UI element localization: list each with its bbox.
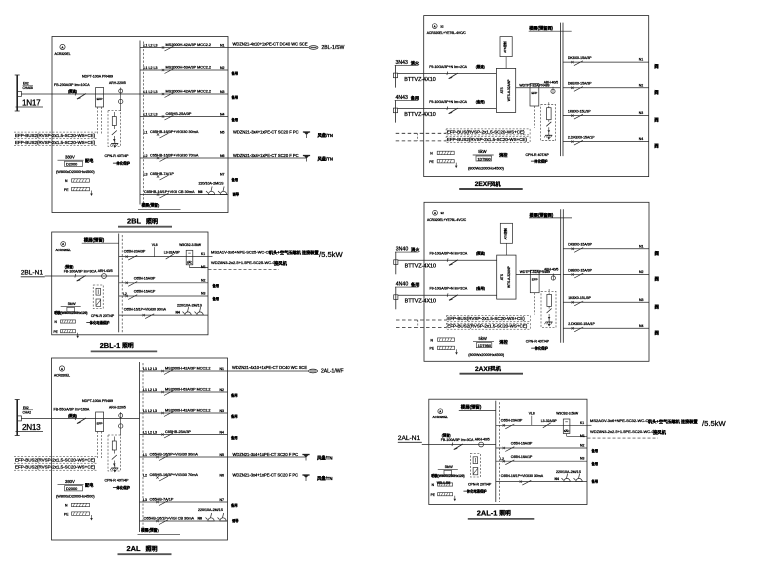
svg-text:C65HB-16/1P+VIGI CB 30mA: C65HB-16/1P+VIGI CB 30mA [144,190,195,194]
svg-text:L3: L3 [143,498,147,502]
svg-text:2AL-N1: 2AL-N1 [398,435,421,442]
svg-text:MS2A1V-3x6+NPE-SC25-WC-CE: MS2A1V-3x6+NPE-SC25-WC-CE [211,249,271,254]
svg-text:L1 L2 L3: L1 L2 L3 [143,409,157,413]
svg-text:风盘/TN: 风盘/TN [318,156,334,163]
svg-text:32: 32 [440,24,444,28]
svg-text:380V: 380V [65,479,75,484]
svg-text:C65N-16A/3P: C65N-16A/3P [511,442,533,446]
svg-text:E02: E02 [23,82,29,86]
svg-text:EFP-BUS(RVSP-2x1.5-SC20-WS+CE): EFP-BUS(RVSP-2x1.5-SC20-WS+CE) [447,129,525,134]
svg-text:C65HB-25A/3P: C65HB-25A/3P [165,430,191,434]
svg-text:MS2000H-42A/3P MCC2.2: MS2000H-42A/3P MCC2.2 [166,89,212,93]
svg-text:220/10A-2M/1S: 220/10A-2M/1S [177,304,203,308]
svg-text:楼层(预留阀): 楼层(预留阀) [529,25,553,32]
svg-text:MS2AGV-3x6+NPE-SC32-WC-CE: MS2AGV-3x6+NPE-SC32-WC-CE [590,418,651,423]
svg-text:WTS-A-32A/4P: WTS-A-32A/4P [507,266,511,288]
svg-text:32: 32 [441,211,445,215]
svg-text:D2000: D2000 [66,487,77,491]
svg-text:N8: N8 [198,190,203,194]
svg-text:K1: K1 [580,421,584,425]
svg-text:F9-10GA/3P+N Im=2CA: F9-10GA/3P+N Im=2CA [430,252,468,256]
svg-text:风机: 风机 [490,180,501,188]
svg-text:5kW: 5kW [68,301,76,306]
svg-text:C65HB-16/3P+VIGI30 30mA: C65HB-16/3P+VIGI30 30mA [150,130,199,134]
svg-text:EFP: EFP [532,278,538,282]
svg-text:备用: 备用 [591,461,599,466]
svg-text:WDZN21-3x4+1xPE-CT SC20 F PC: WDZN21-3x4+1xPE-CT SC20 F PC [233,472,299,477]
svg-text:L1 L2 L3: L1 L2 L3 [143,367,157,371]
svg-text:风盘/TN: 风盘/TN [317,455,333,462]
svg-text:N7: N7 [220,498,225,502]
svg-text:E02: E02 [23,406,29,410]
svg-text:MS2000H-42A/3P MCC2.2: MS2000H-42A/3P MCC2.2 [166,43,212,47]
svg-text:EFP: EFP [97,97,103,101]
svg-text:N4: N4 [555,477,559,481]
svg-text:(W800xD2000Hx4500): (W800xD2000Hx4500) [56,170,95,174]
svg-text:机头+空气压缩机 连接装置: 机头+空气压缩机 连接装置 [648,418,698,425]
svg-text:5kW: 5kW [478,149,486,154]
svg-text:EFP-BUS2(RVSP-2x1.5-SC20-WS+CE: EFP-BUS2(RVSP-2x1.5-SC20-WS+CE) [15,458,96,463]
svg-text:ARH-40/5: ARH-40/5 [98,269,113,273]
svg-text:F9-10GA/3P+N Im=2CA: F9-10GA/3P+N Im=2CA [430,287,468,291]
svg-text:(W800xD2000Hx4500): (W800xD2000Hx4500) [56,495,95,499]
svg-text:N2: N2 [201,278,205,282]
svg-text:BTTVZ-4X10: BTTVZ-4X10 [405,264,436,270]
svg-text:CPN-R 40T/4P: CPN-R 40T/4P [526,340,550,344]
svg-text:(800Wx2000Hx4500): (800Wx2000Hx4500) [468,353,505,357]
svg-text:N4: N4 [639,137,644,141]
svg-text:消控: 消控 [499,338,508,345]
svg-text:ATS: ATS [500,274,504,280]
svg-text:2AL-1/WF: 2AL-1/WF [321,369,344,375]
svg-text:W3CB2-3.5kW: W3CB2-3.5kW [556,412,579,416]
svg-text:2BL-1/SW: 2BL-1/SW [322,45,345,51]
svg-text:2AXF: 2AXF [475,366,492,373]
svg-text:配电: 配电 [85,157,94,164]
svg-text:EFP-BUS2(RVSP-2x1.5-SC20-WS+CE: EFP-BUS2(RVSP-2x1.5-SC20-WS+CE) [15,133,96,138]
svg-text:MS2000H-42A/3P MCC2.2: MS2000H-42A/3P MCC2.2 [165,366,211,370]
svg-text:(限流): (限流) [476,64,485,69]
svg-text:CPN-R 40T/4P: CPN-R 40T/4P [105,154,130,158]
svg-text:备用: 备用 [231,117,239,122]
svg-text:ATS控制: ATS控制 [502,41,507,52]
svg-text:VL8: VL8 [529,412,535,416]
svg-text:N3: N3 [220,90,225,94]
svg-text:WDZ8N3-2x2.5+1.5PE-SC25-WC-CE: WDZ8N3-2x2.5+1.5PE-SC25-WC-CE [211,260,278,265]
svg-text:阀: 阀 [654,117,659,124]
svg-text:1DT9B0: 1DT9B0 [478,157,491,161]
svg-text:2BL-1: 2BL-1 [100,341,121,350]
svg-text:L3-32A/3P: L3-32A/3P [541,419,558,423]
svg-text:A: A [62,242,64,246]
svg-text:EFP-BUS(RVSP-2x1.5-SC20-WS+CE): EFP-BUS(RVSP-2x1.5-SC20-WS+CE) [447,316,525,321]
svg-text:WDZN21-4x10+1xPE-CT DC40 WC SC: WDZN21-4x10+1xPE-CT DC40 WC SCE [233,42,308,47]
svg-text:阀: 阀 [654,89,659,96]
svg-text:DK8X0-15A/3P: DK8X0-15A/3P [568,243,592,247]
svg-text:D8BX0-15A/3P: D8BX0-15A/3P [568,268,592,272]
svg-text:C65HB-7A/1P: C65HB-7A/1P [150,172,174,176]
svg-text:楼层(预留): 楼层(预留) [142,203,160,208]
svg-text:ACR320EL+YE76L-4VC/C: ACR320EL+YE76L-4VC/C [427,218,467,222]
svg-text:L2: L2 [144,154,148,158]
svg-text:楼层(预留阀): 楼层(预留阀) [530,211,554,218]
svg-text:N4: N4 [220,112,225,116]
svg-text:WTS-A-32A/4P: WTS-A-32A/4P [507,80,511,102]
svg-text:楼层(预留): 楼层(预留) [141,528,159,533]
svg-text:WDZN21-3x4+1xPE-CT SC20 F PC: WDZN21-3x4+1xPE-CT SC20 F PC [233,153,299,158]
svg-text:380V: 380V [65,155,75,160]
svg-text:一体化保护: 一体化保护 [113,485,131,490]
svg-text:FB-230A/3P Im=10CA: FB-230A/3P Im=10CA [54,83,90,87]
svg-text:楼层(预留): 楼层(预留) [461,404,482,411]
svg-text:风机: 风机 [491,365,502,373]
svg-text:2.DK8X0-15A/1P: 2.DK8X0-15A/1P [568,322,595,326]
svg-text:N4: N4 [176,311,180,315]
svg-text:N1: N1 [220,43,225,47]
svg-text:PE: PE [54,330,58,334]
svg-text:5kW: 5kW [445,464,453,469]
svg-text:CPN-R 40T/4P: CPN-R 40T/4P [526,153,550,157]
svg-text:EFP: EFP [97,422,103,426]
svg-text:EFP-BUS2(RVSP-2x1.5-SC20-WS+CE: EFP-BUS2(RVSP-2x1.5-SC20-WS+CE) [15,140,96,145]
svg-text:SAC: SAC [564,429,569,433]
svg-text:FB-55GA/3P Im=160A: FB-55GA/3P Im=160A [54,408,90,412]
svg-text:阀: 阀 [654,63,659,70]
svg-text:L1 L2 L3: L1 L2 L3 [144,112,158,116]
svg-text:一体化电涌保护: 一体化电涌保护 [464,489,488,494]
svg-text:WDZN21-4x10+1xPE-CT DC40 WC SC: WDZN21-4x10+1xPE-CT DC40 WC SCE [232,365,307,370]
svg-text:PE: PE [430,347,435,351]
svg-text:1K8X0-15L/3P: 1K8X0-15L/3P [568,109,591,113]
svg-text:5kW: 5kW [479,336,487,341]
svg-text:N2: N2 [639,83,644,87]
svg-text:L2: L2 [500,457,504,461]
svg-text:L1 L2 L3: L1 L2 L3 [144,90,158,94]
svg-text:ACR320EL: ACR320EL [55,248,71,252]
svg-text:C65HB-16/3P+VIGI30 70mA: C65HB-16/3P+VIGI30 70mA [150,153,199,157]
svg-text:N3: N3 [639,298,644,302]
svg-text:诱导: 诱导 [232,518,239,523]
svg-text:220/10A-2M/1S: 220/10A-2M/1S [556,470,582,474]
svg-text:EFP-BUS2(RVSP-2x1.5-SC20-WS+CE: EFP-BUS2(RVSP-2x1.5-SC20-WS+CE) [447,324,528,329]
svg-text:N2: N2 [639,270,644,274]
svg-text:N4: N4 [220,430,225,434]
svg-text:CPN-R 40T/4P: CPN-R 40T/4P [105,479,130,483]
svg-text:明装(W800x250Hx120): 明装(W800x250Hx120) [54,310,87,315]
svg-text:ARH-220/5: ARH-220/5 [109,81,126,85]
svg-text:备用: 备用 [212,283,220,288]
svg-text:CHA2: CHA2 [23,411,32,415]
svg-text:L2: L2 [143,473,147,477]
svg-text:明装(W800x250Hx120): 明装(W800x250Hx120) [431,473,464,478]
svg-text:FB-100A/3P Im=3CA: FB-100A/3P Im=3CA [441,438,474,442]
svg-text:1K8X0-15L/3P: 1K8X0-15L/3P [568,296,591,300]
svg-text:PE: PE [431,493,435,497]
svg-text:W3CB2-3.5kW: W3CB2-3.5kW [179,243,202,247]
svg-text:机头+空气压缩机 连接装置: 机头+空气压缩机 连接装置 [269,249,319,256]
svg-text:L3-32A/3P: L3-32A/3P [164,250,181,254]
svg-text:C65N-16A/1P: C65N-16A/1P [134,290,156,294]
svg-text:C65N-16/1P+VIGI30 30mA: C65N-16/1P+VIGI30 30mA [501,474,544,478]
svg-text:2AL: 2AL [127,544,141,553]
svg-text:L1 L2 L3: L1 L2 L3 [143,430,157,434]
svg-text:NDPT-100A PR489: NDPT-100A PR489 [82,75,113,79]
svg-text:备用: 备用 [591,479,599,484]
svg-text:阀: 阀 [654,143,659,150]
svg-text:BTTVZ-4X10: BTTVZ-4X10 [405,299,436,305]
svg-text:A: A [439,409,441,413]
svg-text:(备用): (备用) [476,99,485,104]
svg-text:1DT9B0: 1DT9B0 [478,344,491,348]
svg-text:CPN-R 20T/4P: CPN-R 20T/4P [468,483,492,487]
svg-text:ATS控制: ATS控制 [502,228,507,239]
svg-text:CPN-R 20T/4P: CPN-R 20T/4P [91,314,115,318]
svg-text:2BL-N1: 2BL-N1 [21,270,44,277]
svg-text:L3: L3 [144,172,148,176]
svg-text:N1: N1 [639,244,644,248]
svg-text:备用: 备用 [212,296,220,301]
svg-text:阀: 阀 [655,329,660,336]
svg-text:N1: N1 [220,367,225,371]
svg-text:一体化电涌保护: 一体化电涌保护 [86,320,110,325]
svg-text:MS2000H-63A/3P MCC2.2: MS2000H-63A/3P MCC2.2 [165,387,211,391]
svg-text:/5.5kW: /5.5kW [702,419,726,428]
svg-text:照明: 照明 [499,509,511,517]
svg-text:F9-10GA/3P+N Im=2CA: F9-10GA/3P+N Im=2CA [429,65,467,69]
svg-text:ACR320EL: ACR320EL [54,374,70,378]
svg-text:/5.5kW: /5.5kW [319,250,343,259]
svg-text:ACR320EL: ACR320EL [55,52,71,56]
svg-text:1N17: 1N17 [22,99,41,108]
svg-text:EFP-BUS2(RVSP-2x1.5-SC20-WS+CE: EFP-BUS2(RVSP-2x1.5-SC20-WS+CE) [15,465,96,470]
svg-text:L2: L2 [123,292,127,296]
svg-text:N2: N2 [220,66,225,70]
svg-text:ATS: ATS [500,87,504,93]
svg-text:CHA08: CHA08 [23,86,34,90]
svg-text:消控: 消控 [499,152,508,159]
svg-text:配电: 配电 [85,482,94,489]
svg-text:VL8: VL8 [152,243,158,247]
svg-text:一体化保护: 一体化保护 [531,159,548,164]
svg-text:N7: N7 [220,172,225,176]
svg-text:(备用): (备用) [476,286,485,291]
svg-text:N2: N2 [220,388,225,392]
svg-text:(800Wx2000Hx4500): (800Wx2000Hx4500) [468,166,505,170]
svg-text:F9-10GA/3P+N Im=2CA: F9-10GA/3P+N Im=2CA [429,100,467,104]
svg-text:2N13: 2N13 [22,423,41,432]
svg-text:备用: 备用 [230,393,238,398]
svg-text:备用: 备用 [230,435,238,440]
svg-text:N6: N6 [220,154,225,158]
svg-text:N2: N2 [580,444,584,448]
svg-text:N5: N5 [220,453,225,457]
svg-text:SAC: SAC [187,260,192,264]
svg-text:风盘/TN: 风盘/TN [317,475,333,482]
svg-text:A: A [434,211,436,215]
svg-text:N3: N3 [580,457,584,461]
svg-text:2EXF: 2EXF [475,181,492,188]
svg-text:BTTVZ-4X10: BTTVZ-4X10 [404,77,435,83]
svg-text:ARH-220/5: ARH-220/5 [109,406,126,410]
svg-text:(预留): (预留) [442,432,451,437]
svg-text:N5: N5 [220,130,225,134]
svg-text:(限流): (限流) [476,251,485,256]
svg-text:C65N-16A/3P: C65N-16A/3P [134,277,156,281]
svg-text:D2000: D2000 [66,163,77,167]
svg-text:N4: N4 [639,324,644,328]
svg-text:接风机: 接风机 [274,260,288,267]
svg-text:备用: 备用 [591,448,599,453]
svg-text:K1: K1 [201,252,205,256]
svg-text:ABH-40/5: ABH-40/5 [544,81,558,85]
svg-text:EFP: EFP [531,91,537,95]
svg-text:风盘/TN: 风盘/TN [318,132,334,139]
svg-text:ABH-40/5: ABH-40/5 [544,267,558,271]
svg-text:WDZN21-3x4+1xPE-CT SC20 F PC: WDZN21-3x4+1xPE-CT SC20 F PC [233,129,299,134]
svg-text:一体化保护: 一体化保护 [113,161,131,166]
svg-text:接风机: 接风机 [653,429,667,436]
svg-text:BTTVZ-4X10: BTTVZ-4X10 [404,112,435,118]
svg-text:楼层(预留): 楼层(预留) [84,237,105,244]
svg-text:照明: 照明 [122,342,134,350]
svg-text:FB-100A/3P Im=3CA: FB-100A/3P Im=3CA [64,270,97,274]
svg-text:一体化保护: 一体化保护 [531,345,548,350]
svg-text:C65N-16A/1P: C65N-16A/1P [511,455,533,459]
svg-text:ACR320EL+YE76L-4VC/C: ACR320EL+YE76L-4VC/C [427,31,467,35]
svg-text:阀: 阀 [655,303,660,310]
svg-text:DK8X0-15A/3P: DK8X0-15A/3P [568,56,592,60]
svg-text:EFP-BUS2(RVSP-2x1.5-SC20-WS+CE: EFP-BUS2(RVSP-2x1.5-SC20-WS+CE) [447,137,528,142]
svg-text:L1: L1 [144,130,148,134]
svg-text:C65N-20A/3P: C65N-20A/3P [501,418,523,422]
svg-text:MS2000H-63A/3P MCC2.2: MS2000H-63A/3P MCC2.2 [166,65,212,69]
svg-text:C65HB-16/1P+VIGI CB 30mA: C65HB-16/1P+VIGI CB 30mA [144,516,195,520]
svg-text:备用: 备用 [231,71,239,76]
svg-text:2BL: 2BL [127,217,141,226]
svg-text:诱导: 诱导 [233,192,240,197]
svg-text:N1: N1 [639,58,644,62]
svg-text:备用: 备用 [231,95,239,100]
svg-text:N3: N3 [201,292,205,296]
svg-text:PE: PE [64,188,69,192]
svg-text:PE: PE [429,160,434,164]
svg-text:ACR320EL: ACR320EL [433,415,449,419]
svg-text:(预留): (预留) [65,264,74,269]
svg-text:WDZN21-3x4+1xPE-CT SC20 F PC: WDZN21-3x4+1xPE-CT SC20 F PC [233,452,299,457]
svg-text:WDZ8N3-2x2.5+1.5PE-SC20-WC-CE: WDZ8N3-2x2.5+1.5PE-SC20-WC-CE [590,429,657,434]
svg-text:备用: 备用 [230,503,238,508]
svg-text:N6: N6 [220,473,225,477]
svg-text:A: A [434,24,436,28]
svg-text:C65HB-16/3P+VIGI30 70mA: C65HB-16/3P+VIGI30 70mA [150,473,199,477]
svg-text:220/10A-2M/1S: 220/10A-2M/1S [198,508,224,512]
svg-text:C65HB-25A/3P: C65HB-25A/3P [166,112,192,116]
svg-text:ARH-40/5: ARH-40/5 [475,438,490,442]
svg-text:N8: N8 [198,516,203,520]
svg-text:M1: M1 [580,434,585,438]
svg-text:备用: 备用 [230,414,238,419]
svg-text:N3: N3 [220,409,225,413]
svg-text:NDPT-100A PR489: NDPT-100A PR489 [82,399,113,403]
svg-text:C65HB-16/3P+VIGI30 30mA: C65HB-16/3P+VIGI30 30mA [150,452,199,456]
svg-text:MS2000H-42A/3P MCC2.2: MS2000H-42A/3P MCC2.2 [165,408,211,412]
svg-text:D8BX0-15A/3P: D8BX0-15A/3P [568,82,592,86]
svg-text:L1: L1 [143,453,147,457]
svg-text:照明: 照明 [146,217,158,225]
svg-text:220/10A-2M/1S: 220/10A-2M/1S [199,182,225,186]
svg-text:L1 L2 L3: L1 L2 L3 [143,388,157,392]
svg-text:2AL-1: 2AL-1 [477,509,498,518]
svg-text:PE: PE [64,512,69,516]
svg-text:C65N-20A/3P: C65N-20A/3P [124,250,146,254]
svg-text:L1 L2 L3: L1 L2 L3 [144,66,158,70]
svg-text:备用: 备用 [231,177,239,182]
svg-text:L1 L2 L3: L1 L2 L3 [144,43,158,47]
svg-text:2.DK8X0-15A/1P: 2.DK8X0-15A/1P [568,135,595,139]
svg-text:阀: 阀 [655,276,660,283]
svg-text:照明: 照明 [146,545,158,553]
svg-text:C65N-16/1P+VIGI30 30mA: C65N-16/1P+VIGI30 30mA [124,308,167,312]
svg-text:C65HB-7A/1P: C65HB-7A/1P [150,497,174,501]
svg-text:阀: 阀 [655,250,660,257]
svg-text:N3: N3 [639,111,644,115]
svg-text:M1: M1 [201,265,206,269]
